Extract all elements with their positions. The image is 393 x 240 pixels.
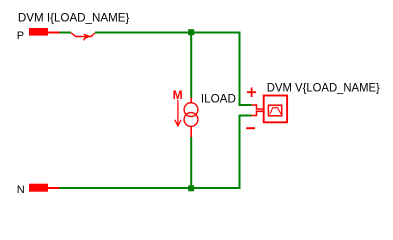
current probe DVM I (dip symbol) [71, 33, 95, 41]
current source ILOAD top pin (red) [190, 98, 192, 104]
svg-text:P: P [17, 30, 24, 42]
svg-text:DVM I{LOAD_NAME}: DVM I{LOAD_NAME} [18, 11, 129, 25]
wire probe to corner (top) [95, 32, 241, 34]
junction top node [188, 29, 194, 35]
svg-text:M: M [173, 90, 183, 102]
wire P to probe [60, 32, 72, 34]
svg-text:N: N [17, 184, 25, 196]
svg-text:DVM V{LOAD_NAME}: DVM V{LOAD_NAME} [267, 81, 380, 95]
terminal P port symbol [29, 28, 48, 36]
wire right branch down to bottom corner [239, 116, 241, 190]
wire junction down to current source [190, 35, 192, 98]
wire current source to bottom junction [190, 137, 192, 186]
terminal N pin wire (red) [48, 187, 60, 189]
plus marker [247, 88, 256, 98]
wire top corner down right branch [239, 32, 241, 107]
current source arrow (direction marker) [175, 100, 181, 126]
bottom wire N to corner [60, 187, 241, 189]
current source ILOAD bottom pin (red) [190, 126, 192, 137]
voltmeter U1 waveform [270, 108, 281, 115]
DVM minus pin (red) [252, 111, 264, 115]
svg-text:ILOAD: ILOAD [201, 91, 236, 105]
wire stub from DVM minus [239, 115, 252, 117]
voltmeter U1 outer box [264, 96, 287, 123]
junction bottom node [188, 185, 194, 191]
minus marker [246, 127, 255, 129]
DVM plus pin (red) [252, 105, 264, 109]
voltmeter U1 inner box [268, 105, 281, 116]
terminal N port symbol [29, 184, 48, 192]
terminal P pin wire (red) [48, 32, 60, 34]
wire stub to DVM plus [239, 104, 252, 106]
current source ILOAD symbol (two circles) [184, 103, 198, 117]
